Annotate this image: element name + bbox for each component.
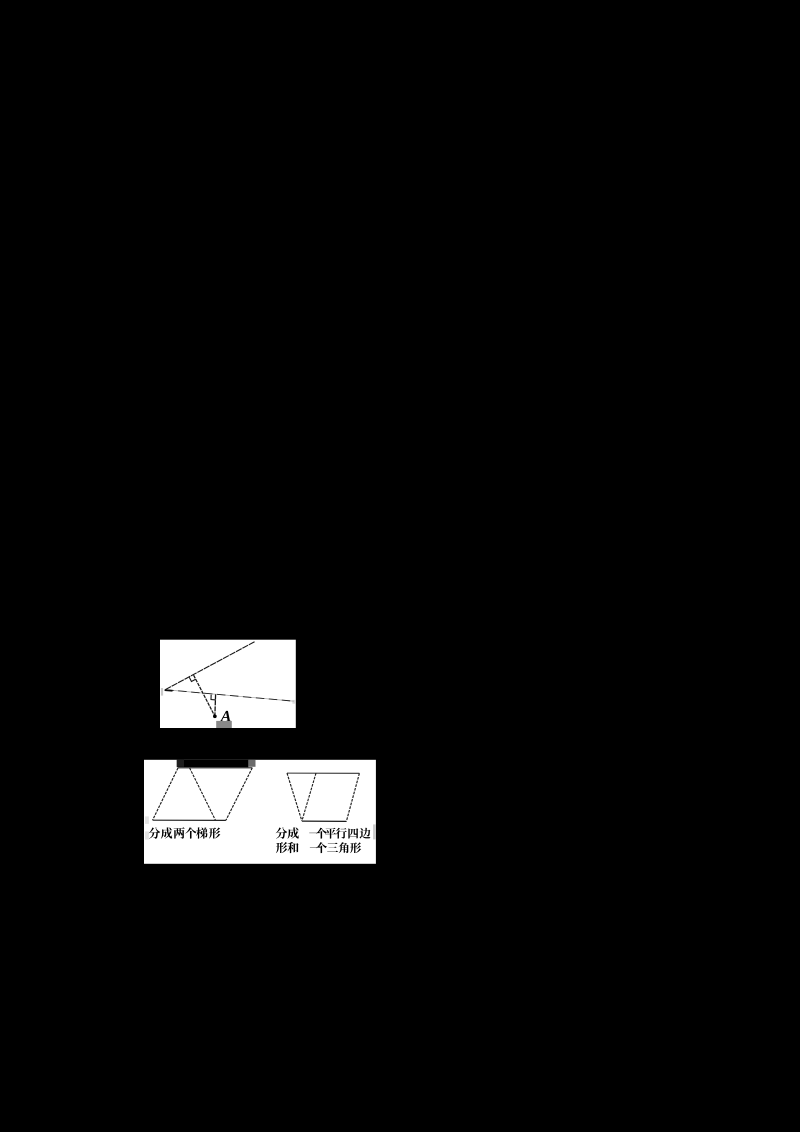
- perpendicular segment from foot on lower ray to point A: [214, 694, 217, 716]
- parallelogram left side: [153, 768, 178, 820]
- perpendicular segment from foot on upper ray to point A: [194, 675, 215, 716]
- figure 2 white panel: [144, 760, 376, 864]
- trapezoid bottom edge: [302, 820, 347, 822]
- figure 1 white panel: [160, 640, 296, 728]
- right-angle mark on lower ray: [211, 695, 216, 700]
- upper ray of angle: [165, 642, 255, 690]
- label A: [220, 711, 231, 721]
- trapezoid right side: [346, 773, 359, 821]
- gray ticks at left edge of panel 2: [145, 816, 149, 824]
- parallelogram top edge: [178, 767, 252, 769]
- trapezoid top edge: [287, 772, 359, 774]
- dark square at left end of bar: [177, 760, 184, 767]
- right-angle mark on upper ray: [189, 677, 195, 681]
- gray tick at right edge of panel 2: [373, 824, 376, 839]
- point A dot: [213, 714, 217, 718]
- trapezoid left side: [287, 773, 302, 821]
- gray tick at angle vertex on left edge of panel 1: [161, 688, 163, 696]
- caption line 1: 分成 一个平行四边: [276, 827, 288, 838]
- caption line 2: 形和 一个三角形: [276, 842, 288, 853]
- gray tick at right end of lower ray: [292, 700, 295, 704]
- gray square at right end of bar: [248, 760, 255, 767]
- gray block below point A: [216, 721, 232, 728]
- parallelogram bottom edge: [153, 819, 226, 821]
- parallelogram right side: [226, 768, 252, 821]
- divider of parallelogram into two trapezoids: [190, 768, 216, 820]
- black bar over top edge of parallelogram: [177, 760, 249, 767]
- divider of trapezoid into parallelogram and triangle: [302, 773, 316, 821]
- caption: 分成两个梯形: [149, 827, 161, 838]
- lower ray of angle: [165, 690, 294, 702]
